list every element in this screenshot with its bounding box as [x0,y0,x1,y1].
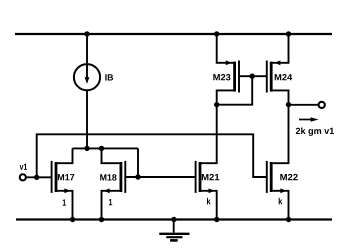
terminal v1 input [20,174,26,180]
transistor M17 channel bar [55,162,58,192]
ground symbol [159,220,189,241]
label 1 (M17) [63,199,66,205]
transistor M23 source arrow [226,60,232,65]
transistor M17 source lead [56,191,73,220]
transistor M22 channel bar [270,162,273,192]
node junction B: M18 drain [99,146,104,151]
transistor M21 source lead [200,191,217,220]
node junction on v1 wire [34,175,39,180]
label M18 [100,174,116,180]
wire drain node horizontal run [73,147,139,149]
transistor M17 gate bar [51,161,53,193]
node junction on M18-M21 gate bus [135,174,140,179]
transistor M18 gate bar [124,161,126,193]
node junction A: IB + M17 drain [84,146,89,151]
transistor M24 source lead (from top rail) [271,34,288,63]
wire output node to output terminal [289,104,319,106]
wire M18 gate to M21 gate bus [125,176,195,178]
wire mirror gates down to M23 drain node [217,76,253,104]
transistor M21 channel bar [199,162,202,192]
node junction mirror gates [250,74,255,79]
label k (M22) [279,198,283,205]
transistor M23 channel bar [233,62,236,92]
transistor M23 drain lead [217,90,235,104]
node junction M24 source tap on top rail [286,31,291,36]
wire positive supply top rail [15,33,332,35]
wire top rail down to IB current source [86,34,88,64]
transistor M24 source arrow [275,60,281,65]
node junction M23 drain / M21 drain [214,102,219,107]
transistor M24 drain lead [271,90,288,104]
wire M23 gate to M24 gate [239,75,267,77]
label M22 [280,174,297,180]
node junction output (M24 drain / M22 drain) [286,102,291,107]
transistor M22 gate bar [266,161,268,193]
label M21 [202,174,220,180]
arrow output current direction [299,117,319,122]
transistor M22 source lead [271,191,288,220]
node junction M21 source tap on bottom rail [214,217,219,222]
transistor M18 drain lead [102,148,121,163]
transistor M18 channel bar [120,162,123,192]
transistor M24 gate bar [266,61,268,93]
node junction M18 source tap on bottom rail [99,217,104,222]
transistor M18 source lead [102,191,121,220]
transistor M23 gate bar [238,61,240,93]
label IB [105,74,113,80]
transistor M18 source arrow [104,188,110,193]
wire v1 up across and down to M22 gate [37,134,267,177]
label 2k gm v1 [296,127,334,135]
label v1 [20,164,27,170]
transistor M21 source arrow [209,188,215,193]
wire ground bottom rail [16,218,332,220]
label 1 (M18) [109,199,112,205]
label M24 [275,74,293,80]
transistor M21 drain lead (up to mirror node) [200,105,217,164]
wire v1 to M17 gate [26,176,52,178]
transistor M22 source arrow [280,188,286,193]
node junction IB tap on top rail [84,31,89,36]
node junction M22 source tap on bottom rail [286,217,291,222]
terminal output [319,102,325,108]
wire IB to M17/M18 drain node [86,90,88,148]
transistor M24 channel bar [270,62,273,92]
label M17 [58,174,75,180]
node junction ground tap on bottom rail [171,217,176,222]
transistor M23 source lead (from top rail) [217,34,235,63]
node junction M17 source tap on bottom rail [70,217,75,222]
label k (M21) [207,198,211,205]
current source IB [74,64,100,90]
transistor M21 gate bar [195,161,197,193]
transistor M17 source arrow [64,188,70,193]
label M23 [213,74,230,80]
node junction M23 source tap on top rail [214,31,219,36]
transistor M17 drain lead [56,148,73,163]
wire drain node down to gate bus [137,148,139,177]
transistor M22 drain lead (up to output node) [271,105,288,164]
